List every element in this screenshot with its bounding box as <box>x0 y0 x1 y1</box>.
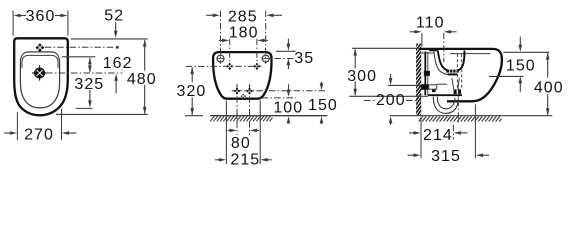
dim 400 arrow down <box>546 108 550 115</box>
dim 150 arrow down <box>519 45 523 52</box>
svg-text:300: 300 <box>347 68 377 85</box>
dim 300 arrow down <box>353 89 357 96</box>
bidet front outline <box>213 52 271 99</box>
svg-text:270: 270 <box>24 127 54 144</box>
dim 320 line upper <box>191 67 193 82</box>
dim 150f arrow down <box>320 83 324 90</box>
faucet hole marker <box>36 43 45 52</box>
deck hole right tick <box>262 58 270 60</box>
bidet plan outline <box>14 38 68 115</box>
deck ext line right <box>276 50 296 52</box>
wall section <box>416 44 421 116</box>
dim 162 arrow up <box>88 57 92 64</box>
dim 270 arrow right <box>62 131 69 135</box>
dim 300 arrow up <box>353 48 357 55</box>
top edge ext line <box>71 38 148 40</box>
dim 480 line upper <box>144 40 146 70</box>
marker diamond left <box>226 63 233 70</box>
dim 285 arrow left <box>213 14 220 18</box>
dim 270 ext left <box>16 112 18 140</box>
dim 180 arrow right <box>257 39 264 43</box>
dim 400 line lower <box>547 94 549 115</box>
dim 320 arrow up <box>190 67 194 74</box>
dim 360 ext line right <box>67 11 69 36</box>
dim 360 arrow left <box>13 14 20 18</box>
deck hole left tick <box>216 58 224 60</box>
dim 100 arrow down <box>287 90 291 97</box>
faucet centreline <box>45 46 116 48</box>
dim 214 arrow left <box>414 131 421 135</box>
svg-text:400: 400 <box>534 79 564 96</box>
dim 52 arrow <box>114 31 118 38</box>
drain valve body <box>446 70 459 73</box>
dim 150f arrow up <box>320 116 324 123</box>
drain marker <box>241 94 246 99</box>
wall bracket <box>424 71 430 76</box>
dim 325 arrow down <box>88 100 92 107</box>
dim 400 arrow up <box>546 52 550 59</box>
dim 80 arrow right <box>250 129 257 133</box>
dim 100 arrow up <box>287 116 291 123</box>
deck ext line left <box>352 47 419 49</box>
bowl front wall <box>456 51 464 71</box>
supply fitting <box>421 84 428 90</box>
trap connector right <box>458 89 461 94</box>
outlet funnel right wall <box>458 78 460 89</box>
svg-text:150: 150 <box>308 97 338 114</box>
floor hatch (side) <box>419 116 502 121</box>
floor hatch (front) <box>210 116 272 121</box>
svg-text:360: 360 <box>26 8 56 25</box>
dim 315 ext right <box>474 104 476 158</box>
dim 480 line lower <box>144 85 146 114</box>
outlet funnel left wall <box>452 78 454 89</box>
inlet ext line (side) <box>489 75 524 77</box>
svg-text:80: 80 <box>231 135 251 152</box>
dim 270 ext right <box>61 109 63 140</box>
drain pipe hidden right <box>461 54 463 89</box>
dim 480 arrow down <box>143 107 147 114</box>
front ext line <box>56 113 148 115</box>
dim 285 arrow right <box>266 14 273 18</box>
svg-text:214: 214 <box>423 127 453 144</box>
supply line <box>388 84 421 86</box>
svg-text:35: 35 <box>294 50 314 67</box>
dim 110 arrow right <box>444 30 451 34</box>
dim 315 arrow left <box>413 153 420 157</box>
deck holes CL right stub <box>275 58 296 60</box>
trap connector left <box>454 89 457 94</box>
dim 162 arrow down <box>88 66 92 73</box>
deck rim back <box>419 52 434 54</box>
dim 150 arrow up <box>519 76 523 83</box>
tap slot <box>429 49 438 51</box>
svg-text:100: 100 <box>273 100 303 117</box>
bowl bottom ext line <box>76 107 93 109</box>
drain target marker <box>35 69 44 78</box>
dim 180 arrow left <box>222 39 229 43</box>
dim 270 arrow left <box>10 131 17 135</box>
inner CL left <box>229 39 231 71</box>
tap CL <box>443 33 445 62</box>
outlet pipe ext line <box>349 95 428 97</box>
drain centreline <box>46 72 122 74</box>
svg-text:52: 52 <box>104 8 124 25</box>
underside step line <box>428 94 462 96</box>
supply pipe inner line <box>437 83 447 85</box>
dim 325 arrow up <box>114 74 118 81</box>
deck hole left <box>217 55 224 62</box>
dim 110 ext line <box>421 33 423 47</box>
dim 162 line <box>89 58 91 72</box>
marker diamond right <box>253 63 260 70</box>
wall ext below floor <box>420 118 422 159</box>
bowl inner edge (plan) <box>22 55 58 68</box>
dim 480 arrow up <box>143 39 147 46</box>
dim 360 arrow right <box>60 14 67 18</box>
hole CL left <box>220 11 222 64</box>
dim 35 arrow up <box>287 58 291 65</box>
drain valve lower <box>448 73 457 75</box>
drain CL (front) <box>262 97 296 99</box>
dim 215 arrow right <box>261 158 268 162</box>
dim 214 arrow right <box>454 131 461 135</box>
bolt CL left <box>236 84 238 135</box>
dim 110 arrow left <box>414 30 421 34</box>
dim 215 ext left <box>225 100 227 164</box>
pedestal back inner <box>427 52 429 96</box>
svg-text:110: 110 <box>416 14 445 31</box>
dim 315 arrow right <box>476 153 483 157</box>
deck rim front <box>450 53 491 55</box>
floor line (side) <box>390 115 553 117</box>
dim 215 arrow left <box>219 158 226 162</box>
dim 360 ext line left <box>12 11 14 36</box>
drain pipe hidden left <box>456 54 458 89</box>
bolt marker left <box>234 88 241 95</box>
bidet side silhouette <box>419 49 502 101</box>
bolt marker right <box>246 88 253 95</box>
dim 200 arrow up <box>389 116 393 123</box>
bowl back wall <box>438 51 449 71</box>
svg-text:200: 200 <box>376 92 406 109</box>
bidet bowl rim (plan) <box>20 52 59 108</box>
dim 320 arrow down <box>190 108 194 115</box>
svg-text:315: 315 <box>431 148 461 165</box>
dim 215 ext right <box>259 100 261 164</box>
dim 35 arrow down <box>287 44 291 51</box>
svg-text:480: 480 <box>127 71 157 88</box>
dim 80 arrow left <box>230 129 237 133</box>
dim 300 line lower <box>354 81 356 95</box>
trap inner bend <box>437 97 455 109</box>
wall hatch gaps <box>416 37 421 120</box>
supply elbow block <box>432 89 436 92</box>
svg-text:162: 162 <box>103 55 133 72</box>
svg-text:150: 150 <box>506 57 536 74</box>
dim 200 arrow down <box>389 78 393 85</box>
svg-text:215: 215 <box>230 152 260 169</box>
dim 320 line lower <box>191 97 193 115</box>
bowl back wall outer <box>434 51 458 75</box>
markers horizontal CL <box>186 65 262 67</box>
bolt CL right <box>249 84 251 135</box>
trap outer bend <box>433 97 458 114</box>
floor line (front) <box>210 115 327 117</box>
trap CL below floor <box>452 125 454 140</box>
inner CL right <box>256 39 258 71</box>
dim 320 ext line <box>185 115 203 117</box>
deck hole right <box>262 55 269 62</box>
bowl top ext line <box>62 56 95 58</box>
dim 400 line upper <box>547 53 549 77</box>
inlet CL <box>232 90 328 92</box>
pedestal back line <box>424 52 426 96</box>
hole CL right <box>265 11 267 64</box>
dim 300 line upper <box>354 49 356 68</box>
drain pipe CL <box>457 88 459 123</box>
svg-text:285: 285 <box>228 8 258 25</box>
drain CL stub right <box>406 100 421 102</box>
drain CL stub left <box>364 100 375 102</box>
svg-text:180: 180 <box>229 25 259 42</box>
svg-text:320: 320 <box>177 83 207 100</box>
deck ext line right <box>503 51 549 53</box>
